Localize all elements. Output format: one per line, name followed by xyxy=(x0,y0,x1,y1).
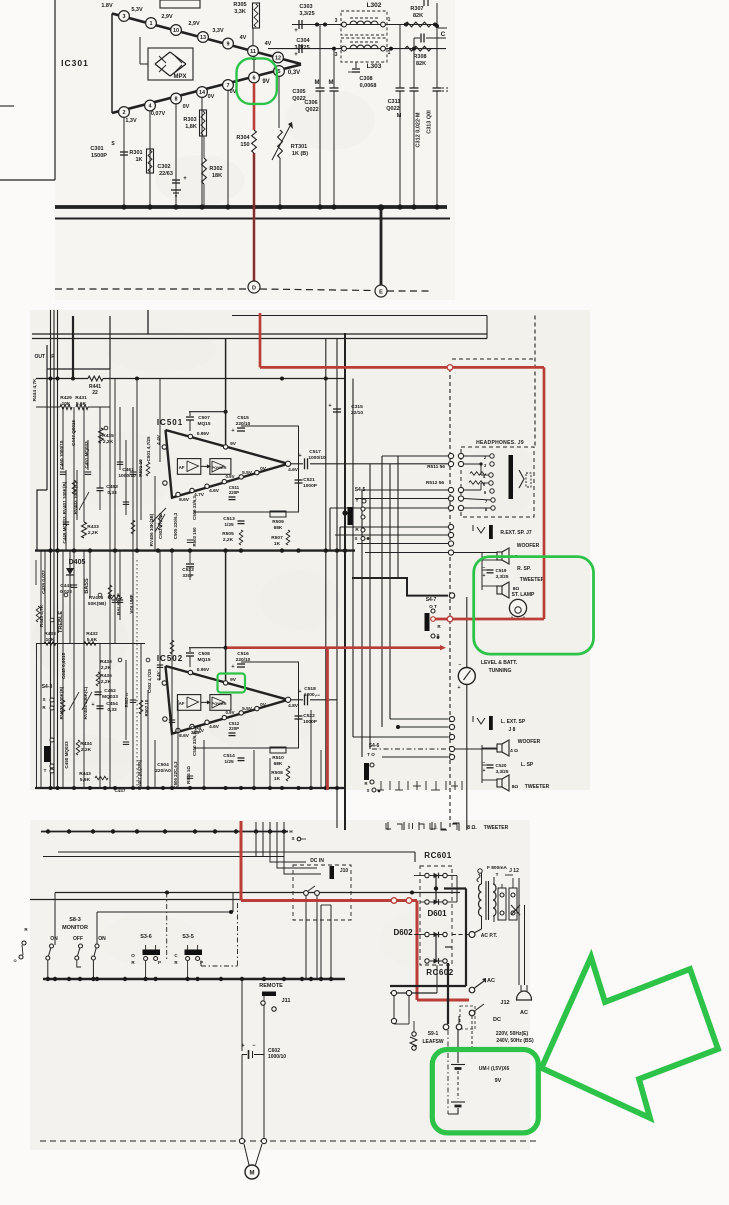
battery cell wire top xyxy=(457,1030,459,1063)
svg-text:6: 6 xyxy=(252,76,255,82)
svg-text:+: + xyxy=(298,453,301,459)
svg-text:C520: C520 xyxy=(496,763,507,768)
green box around IC502 9V pin xyxy=(218,674,246,693)
svg-text:F 800mA: F 800mA xyxy=(487,865,508,871)
svg-text:C311: C311 xyxy=(388,99,401,105)
wire pin14 down to bus xyxy=(201,98,203,208)
svg-text:D602: D602 xyxy=(393,928,413,937)
svg-text:4V: 4V xyxy=(265,41,272,47)
headphone jack sleeve bar xyxy=(509,455,514,499)
svg-text:R433: R433 xyxy=(44,631,56,637)
svg-text:82K: 82K xyxy=(416,61,426,67)
svg-text:LEAFSW: LEAFSW xyxy=(422,1039,443,1045)
svg-text:R434: R434 xyxy=(80,741,92,747)
svg-text:13: 13 xyxy=(200,35,206,41)
svg-text:Q022: Q022 xyxy=(305,107,318,113)
svg-text:MPX: MPX xyxy=(173,74,186,80)
contact circle x452 y595.6 xyxy=(449,593,454,598)
svg-text:R444 4,7K: R444 4,7K xyxy=(32,378,38,401)
red supply wire IC502 9V xyxy=(227,646,440,649)
row of symbols above bottom rail y822-830 xyxy=(51,795,53,822)
battery bottom wire xyxy=(448,1108,458,1114)
bus junction dots xyxy=(121,204,126,209)
R EXT SP plug bracket xyxy=(477,527,485,533)
svg-text:TWEETER: TWEETER xyxy=(520,577,545,583)
svg-text:0V: 0V xyxy=(260,466,267,472)
svg-text:R304: R304 xyxy=(236,135,250,141)
battery cell 2 xyxy=(451,1101,465,1103)
IC301 pin 2 xyxy=(119,107,130,118)
second bus line xyxy=(55,218,450,220)
svg-text:C509 33/6,3: C509 33/6,3 xyxy=(192,495,197,519)
svg-text:C450 MQ033: C450 MQ033 xyxy=(64,741,69,769)
svg-text:M: M xyxy=(397,113,402,119)
svg-text:R508: R508 xyxy=(271,770,283,776)
svg-text:+: + xyxy=(458,685,461,691)
svg-text:5,6K: 5,6K xyxy=(76,401,87,407)
svg-text:R443: R443 xyxy=(79,771,91,777)
dash-dot vertical x237.5 xyxy=(237,903,239,966)
svg-text:R: R xyxy=(51,354,55,360)
verticals from tweeter row xyxy=(255,822,257,857)
small box at top edge above IC301 xyxy=(160,0,200,8)
svg-text:WOOFER: WOOFER xyxy=(518,739,541,745)
svg-text:R305: R305 xyxy=(233,2,246,8)
svg-text:C506 22C,6,3: C506 22C,6,3 xyxy=(173,761,178,789)
DC contact xyxy=(469,1010,475,1016)
wire pin2 down to bus xyxy=(123,118,125,208)
svg-text:M: M xyxy=(329,80,334,86)
svg-text:8.6V: 8.6V xyxy=(179,733,190,739)
dashed jog to P contact xyxy=(201,965,238,967)
svg-text:S4-6: S4-6 xyxy=(369,743,380,749)
ground symbol below C302 xyxy=(171,189,181,191)
svg-text:10: 10 xyxy=(173,28,179,34)
svg-text:8Ω: 8Ω xyxy=(512,784,519,790)
vertical rail x337 xyxy=(336,339,338,829)
IC301 pin 13 xyxy=(198,32,209,43)
svg-text:C519: C519 xyxy=(496,568,507,573)
thick wire row3 to x452 xyxy=(435,935,437,962)
IC301 pin 1 xyxy=(146,18,157,29)
DC IN contacts xyxy=(304,891,309,896)
left bottom rows between rails xyxy=(35,560,37,585)
svg-text:T: T xyxy=(356,498,359,503)
R EXT SP jack bar xyxy=(489,525,493,539)
svg-text:4,4V: 4,4V xyxy=(156,670,161,680)
battery left dash-dot return xyxy=(447,1030,449,1114)
J10 jack bar xyxy=(330,866,335,879)
bundle verticals to output jacks xyxy=(352,379,354,738)
svg-text:2,9V: 2,9V xyxy=(188,21,200,27)
svg-text:C306: C306 xyxy=(304,100,317,106)
R305 resistor xyxy=(253,3,260,28)
headphone plug symbol xyxy=(519,470,524,488)
svg-text:220/A0: 220/A0 xyxy=(155,768,171,774)
power bus line (thick) xyxy=(55,205,447,209)
svg-text:3,3V: 3,3V xyxy=(212,28,224,34)
svg-text:R307: R307 xyxy=(410,6,423,12)
svg-text:150: 150 xyxy=(240,142,249,148)
IC301 pin 7 xyxy=(223,80,234,91)
bottom rail of amp board thick xyxy=(35,787,346,789)
red wire to DC jack xyxy=(417,999,469,1002)
row y552.5 to woofer xyxy=(365,552,449,554)
svg-text:0V: 0V xyxy=(183,104,190,110)
svg-text:P: P xyxy=(200,960,203,965)
IC502 top supply wire xyxy=(189,647,226,649)
contacts below jack xyxy=(443,1024,449,1030)
svg-text:RV407 (B)(2P5): RV407 (B)(2P5) xyxy=(137,759,142,790)
wire y912 xyxy=(97,911,233,913)
svg-text:L303: L303 xyxy=(367,63,382,70)
svg-text:240V, 50Hz (BS): 240V, 50Hz (BS) xyxy=(496,1038,534,1044)
svg-text:O: O xyxy=(131,953,135,958)
IC301 top rail wire xyxy=(112,14,301,65)
svg-text:2,2K: 2,2K xyxy=(81,747,92,753)
row woofer R y543.5 xyxy=(357,543,449,545)
headphone contact circles xyxy=(448,453,453,458)
dash-dot vertical x166.7 xyxy=(166,893,168,961)
svg-text:C521: C521 xyxy=(303,477,315,483)
svg-text:2,2K: 2,2K xyxy=(103,439,114,445)
svg-text:18K: 18K xyxy=(212,173,222,179)
arrow from pin 6 up to pin 11 xyxy=(253,57,255,72)
svg-text:22/63: 22/63 xyxy=(159,171,173,177)
svg-text:D: D xyxy=(252,286,256,292)
svg-text:C517: C517 xyxy=(309,449,321,455)
rectifier diode row 4 xyxy=(425,959,429,963)
speaker L wiring vertical xyxy=(481,745,483,783)
resistor R510 xyxy=(270,747,286,753)
svg-text:1: 1 xyxy=(149,21,152,27)
IC301 pin 11 xyxy=(248,46,259,57)
bottom bus y979 xyxy=(43,978,345,980)
vertical rail x325.8 xyxy=(325,339,327,789)
green rounded box around battery xyxy=(432,1050,538,1133)
IC301 pin 14 xyxy=(197,87,208,98)
svg-text:0,33: 0,33 xyxy=(107,490,117,496)
svg-text:68K: 68K xyxy=(274,525,283,531)
svg-text:H: H xyxy=(289,829,292,834)
AF block inside IC502 xyxy=(177,695,200,711)
green box around right speaker and lamp xyxy=(474,557,594,655)
svg-text:C304: C304 xyxy=(296,38,310,44)
tweeter row small symbols xyxy=(387,822,389,830)
svg-text:R435: R435 xyxy=(102,433,114,439)
POWER block inside IC501 xyxy=(210,459,231,475)
svg-text:S9-1: S9-1 xyxy=(428,1031,439,1037)
svg-text:S3-6: S3-6 xyxy=(140,934,152,940)
svg-text:R301: R301 xyxy=(129,150,142,156)
output wire IC501 xyxy=(291,463,303,465)
svg-text:9V: 9V xyxy=(230,441,237,447)
row to headphone contact y464 xyxy=(449,463,451,465)
AC wall plug xyxy=(517,991,532,1000)
svg-text:2,2K: 2,2K xyxy=(88,530,99,536)
output wire IC502 xyxy=(291,699,303,701)
vertical supply to IC502 9V pin xyxy=(225,551,227,681)
svg-text:R505: R505 xyxy=(222,531,234,537)
svg-text:AF: AF xyxy=(179,465,185,470)
svg-text:C507: C507 xyxy=(198,415,210,421)
svg-text:8: 8 xyxy=(174,97,177,103)
svg-text:J 12: J 12 xyxy=(509,868,519,874)
node wire y24.5 (FM det out) xyxy=(292,24,437,26)
svg-text:C501 4,7/25: C501 4,7/25 xyxy=(146,436,151,461)
svg-text:TWEETER: TWEETER xyxy=(484,825,509,831)
rectifier diode row 1 xyxy=(425,873,429,877)
svg-text:T: T xyxy=(44,768,47,773)
svg-text:C305: C305 xyxy=(292,89,305,95)
op-amp IC501 triangle xyxy=(166,430,289,498)
svg-text:IC501: IC501 xyxy=(157,418,183,427)
svg-text:S8-3: S8-3 xyxy=(69,917,81,923)
wire pin11 up to R305 xyxy=(252,28,254,45)
svg-text:4.6V: 4.6V xyxy=(209,724,220,730)
svg-text:0.95V: 0.95V xyxy=(197,431,210,437)
svg-text:1000P: 1000P xyxy=(303,483,318,489)
red wire left along lamp row xyxy=(433,618,544,621)
IC301 pin 12 xyxy=(273,52,284,63)
wire between diode rows xyxy=(435,876,437,903)
rectifier diode row 2 D601 xyxy=(425,900,429,904)
svg-text:R501 10: R501 10 xyxy=(138,459,143,477)
svg-text:R.EXT. SP. J7: R.EXT. SP. J7 xyxy=(500,530,532,536)
svg-text:1K: 1K xyxy=(274,541,281,547)
svg-text:C301: C301 xyxy=(90,146,103,152)
svg-text:ST. LAMP: ST. LAMP xyxy=(512,592,535,598)
tweeter L speaker xyxy=(497,779,502,787)
svg-text:J10: J10 xyxy=(340,868,349,874)
IC301 pin 9 xyxy=(223,38,234,49)
rows to L speakers xyxy=(390,718,449,720)
red wire down x327.5 xyxy=(326,648,329,790)
wire pin7 down to bus xyxy=(227,91,229,208)
svg-text:HEADPHONES. J9: HEADPHONES. J9 xyxy=(476,440,524,446)
junction dots top wires xyxy=(315,23,319,27)
svg-text:TWEETER: TWEETER xyxy=(525,784,550,790)
IC501 pin 9V xyxy=(223,445,227,449)
svg-text:R: R xyxy=(364,781,367,786)
svg-text:220P: 220P xyxy=(229,726,239,731)
frame right corner vertical xyxy=(486,316,488,339)
speaker contact circles right xyxy=(448,524,453,529)
svg-text:5.5V: 5.5V xyxy=(242,706,253,712)
svg-text:MQ15: MQ15 xyxy=(197,421,210,427)
mid rail dots xyxy=(48,548,52,552)
svg-text:8 Ω.: 8 Ω. xyxy=(467,825,477,831)
long verticals left edge of amp board xyxy=(50,310,52,788)
svg-text:3: 3 xyxy=(335,52,338,58)
svg-text:C303: C303 xyxy=(299,4,312,10)
tuner block corner (left edge of adjacent stage) xyxy=(54,0,56,180)
svg-text:C448 0,0015: C448 0,0015 xyxy=(61,652,66,679)
svg-text:R433: R433 xyxy=(87,524,99,530)
AC cord verticals xyxy=(518,878,520,985)
selector top leads xyxy=(501,884,503,888)
svg-text:OUT: OUT xyxy=(34,354,45,360)
svg-text:2,9V: 2,9V xyxy=(161,14,173,20)
svg-text:82K: 82K xyxy=(413,13,423,19)
svg-text:1000/10: 1000/10 xyxy=(268,1054,286,1060)
svg-text:330P: 330P xyxy=(182,573,194,579)
speaker R wiring vertical xyxy=(481,553,483,591)
POWER block inside IC502 xyxy=(210,695,231,711)
svg-text:0V: 0V xyxy=(208,94,215,100)
extra small caps near IC outputs xyxy=(187,539,193,541)
woofer L speaker xyxy=(497,744,502,752)
AC P.T. contact xyxy=(469,932,475,938)
feedback loop wire IC501 xyxy=(194,426,299,512)
svg-text:3: 3 xyxy=(122,14,125,20)
svg-text:J11: J11 xyxy=(282,998,291,1004)
dotted supply rail y831 xyxy=(41,831,288,833)
svg-text:0.95V: 0.95V xyxy=(197,667,210,673)
svg-text:REMOTE: REMOTE xyxy=(259,983,283,989)
svg-text:J 8: J 8 xyxy=(509,727,516,733)
svg-text:R503 ₁₀: R503 ₁₀ xyxy=(124,692,129,707)
svg-text:+: + xyxy=(241,1043,244,1049)
vertical x457 diodes right xyxy=(456,876,458,903)
RC601 dashed box xyxy=(420,866,452,965)
IC301 pin 8 xyxy=(171,93,182,104)
capacitor C519 xyxy=(487,569,494,571)
svg-text:S3-5: S3-5 xyxy=(182,934,194,940)
red contact circle on lamp row xyxy=(447,616,453,622)
svg-text:−: − xyxy=(252,1043,255,1049)
rail y993 with contacts xyxy=(390,992,437,994)
pot arrows xyxy=(79,492,89,510)
svg-text:R512 56: R512 56 xyxy=(426,480,444,486)
svg-text:1000P: 1000P xyxy=(303,719,318,725)
IC501 output pin xyxy=(286,461,291,466)
svg-text:TUNNING: TUNNING xyxy=(489,668,512,674)
svg-text:−: − xyxy=(459,662,462,668)
svg-text:M: M xyxy=(250,1171,255,1177)
red wire horizontal to right speaker block xyxy=(260,366,544,369)
DC IN dashed box xyxy=(293,865,351,920)
wire from bus to DC area x321 x331 xyxy=(320,905,322,979)
svg-text:O: O xyxy=(13,958,16,963)
svg-text:R. SP.: R. SP. xyxy=(517,566,531,572)
svg-text:S: S xyxy=(42,697,45,702)
svg-text:0,3V: 0,3V xyxy=(288,70,300,76)
svg-text:9V: 9V xyxy=(495,1078,502,1084)
svg-text:1,8K: 1,8K xyxy=(185,124,197,130)
svg-text:1K: 1K xyxy=(135,157,142,163)
wire y407 with R429 R431 xyxy=(36,406,60,408)
svg-text:C: C xyxy=(441,31,446,38)
row to headphone contact y456 xyxy=(382,455,449,457)
svg-text:AC P.T.: AC P.T. xyxy=(481,933,498,939)
scatter resistors left board xyxy=(72,480,76,494)
wire pin4 down to bus xyxy=(149,111,151,207)
svg-text:P: P xyxy=(158,960,161,965)
row y498.5 xyxy=(355,498,449,500)
row y508 xyxy=(330,507,449,509)
svg-text:3,3K: 3,3K xyxy=(234,9,246,15)
svg-text:1K (B): 1K (B) xyxy=(292,151,308,157)
svg-text:C312 0,022·M: C312 0,022·M xyxy=(416,112,422,147)
left board verticals (tone control leads) xyxy=(62,407,64,470)
red contact circles on red wire xyxy=(391,898,397,904)
svg-text:AC: AC xyxy=(487,978,495,984)
wires inside J9 box xyxy=(464,455,490,457)
wires x242 x264 down to dashed rail xyxy=(241,1055,243,1139)
step wires tweeter columns to DC-IN xyxy=(270,857,306,863)
dashed rail y1141 xyxy=(40,1140,540,1142)
svg-text:RC602: RC602 xyxy=(426,968,453,977)
IC301 pin 10 xyxy=(171,25,182,36)
MPX decoder box inside IC301 xyxy=(148,48,193,80)
svg-text:MQ15: MQ15 xyxy=(197,657,210,663)
svg-text:C522: C522 xyxy=(303,713,315,719)
svg-text:+: + xyxy=(231,664,234,670)
svg-text:S: S xyxy=(291,836,294,841)
IC301 pin 5 xyxy=(274,66,285,77)
svg-text:+: + xyxy=(328,403,331,409)
svg-text:+: + xyxy=(231,428,234,434)
IC501 pin left-bottom xyxy=(163,481,167,485)
svg-text:C508: C508 xyxy=(198,651,210,657)
svg-text:E: E xyxy=(379,290,383,296)
contact circles on dashed rail xyxy=(239,1138,244,1143)
svg-text:220P: 220P xyxy=(229,490,239,495)
bottom rail dots xyxy=(49,786,53,790)
arrow AF to POWER IC502 xyxy=(201,701,210,703)
svg-text:C313 Q0l: C313 Q0l xyxy=(427,110,433,134)
svg-text:M: M xyxy=(315,80,320,86)
svg-text:C516: C516 xyxy=(237,651,249,657)
wire MPX box to rails xyxy=(140,63,148,65)
svg-text:R438: R438 xyxy=(100,659,112,665)
red wire down right side xyxy=(543,367,546,619)
IC501 pin 0.95V xyxy=(188,434,192,438)
red contact at S4-7 R xyxy=(431,617,436,622)
svg-text:DC: DC xyxy=(493,1017,501,1023)
svg-text:3,3/25: 3,3/25 xyxy=(496,574,509,579)
svg-text:1000/10: 1000/10 xyxy=(308,455,326,461)
wire x242 down xyxy=(241,979,243,1051)
svg-text:R302: R302 xyxy=(209,166,222,172)
red contact circle on dashed rail y367 xyxy=(447,365,453,371)
coil L303 with dashed shield box xyxy=(341,38,387,62)
svg-text:R432: R432 xyxy=(86,631,98,637)
svg-text:┴: ┴ xyxy=(433,825,438,832)
svg-text:C447 Q0015: C447 Q0015 xyxy=(71,420,76,446)
svg-text:R431: R431 xyxy=(75,395,87,401)
IC501 pin left-top xyxy=(162,445,166,449)
vertical rail x345 thick xyxy=(344,333,346,830)
svg-text:2: 2 xyxy=(122,110,125,116)
wire pin6 black under red xyxy=(253,153,255,281)
transformer core xyxy=(485,881,487,920)
svg-text:IC502: IC502 xyxy=(157,654,183,663)
svg-text:T: T xyxy=(496,872,499,877)
svg-text:S4-5: S4-5 xyxy=(355,487,366,493)
svg-text:C513: C513 xyxy=(223,516,235,522)
svg-text:8.6V: 8.6V xyxy=(179,497,190,503)
dashed vertical x535 xyxy=(534,316,536,448)
battery cell 1 xyxy=(451,1064,465,1066)
svg-text:4.8V: 4.8V xyxy=(288,703,299,709)
step wire to lower board xyxy=(37,490,47,551)
wire pin8 down to bus xyxy=(175,104,177,207)
vertical supply to IC501 9V pin xyxy=(225,339,227,445)
svg-text:UM-l (l,5V)X6: UM-l (l,5V)X6 xyxy=(479,1066,510,1072)
svg-text:R429: R429 xyxy=(60,395,72,401)
